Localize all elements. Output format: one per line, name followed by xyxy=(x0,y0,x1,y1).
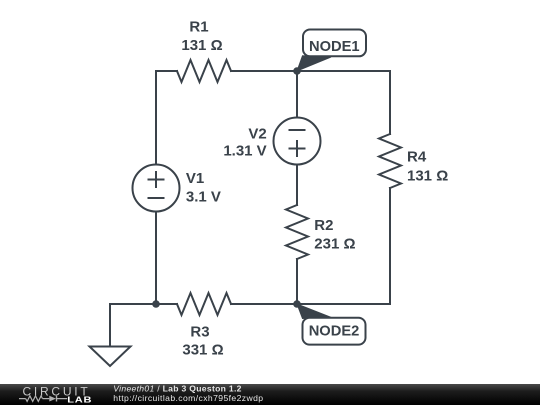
node junction dot left bottom xyxy=(152,300,160,308)
wire ground stem xyxy=(109,304,111,347)
node NODE2 callout tail xyxy=(297,304,331,319)
voltage source V1 xyxy=(133,165,180,212)
wire mid column lower xyxy=(296,259,298,304)
resistor R2 xyxy=(286,205,308,259)
wire bottom horizontal to right rail xyxy=(231,303,390,305)
resistor R4 xyxy=(379,134,401,188)
node NODE1 callout box xyxy=(303,30,366,57)
svg-text:V2: V2 xyxy=(248,125,266,142)
wire left rail upper xyxy=(155,71,157,165)
wire top horizontal to right rail xyxy=(231,70,390,72)
svg-text:V1: V1 xyxy=(186,170,204,187)
CircuitLab logo diode glyph xyxy=(49,396,56,402)
svg-text:R4: R4 xyxy=(407,149,427,166)
wire right rail upper xyxy=(389,71,391,134)
svg-text:R3: R3 xyxy=(190,323,209,340)
wire top-left horizontal xyxy=(156,70,177,72)
wire mid column upper xyxy=(296,71,298,118)
ground xyxy=(90,347,131,367)
resistor R3 xyxy=(177,293,231,315)
node junction dot NODE2 xyxy=(293,300,301,308)
svg-text:R2: R2 xyxy=(314,217,333,234)
svg-text:NODE1: NODE1 xyxy=(309,39,360,55)
svg-text:3.1 V: 3.1 V xyxy=(186,189,221,206)
svg-text:LAB: LAB xyxy=(67,396,92,405)
node NODE1 callout tail xyxy=(297,56,331,71)
svg-text:131 Ω: 131 Ω xyxy=(181,37,222,54)
wire bottom-left horizontal xyxy=(110,303,177,305)
svg-text:R1: R1 xyxy=(189,18,208,35)
svg-text:NODE2: NODE2 xyxy=(309,323,360,339)
svg-text:1.31 V: 1.31 V xyxy=(223,143,266,160)
svg-text:331 Ω: 331 Ω xyxy=(182,342,223,359)
wire mid column between V2 and R2 xyxy=(296,165,298,206)
voltage source V2 xyxy=(274,118,321,165)
wire right rail lower xyxy=(389,188,391,304)
wire left rail lower xyxy=(155,212,157,305)
svg-text:http://circuitlab.com/cxh795fe: http://circuitlab.com/cxh795fe2zwdp xyxy=(113,393,263,403)
svg-text:131 Ω: 131 Ω xyxy=(407,167,448,184)
svg-text:231 Ω: 231 Ω xyxy=(314,236,355,253)
resistor R1 xyxy=(177,60,231,82)
node NODE2 callout box xyxy=(303,318,366,345)
node junction dot NODE1 xyxy=(293,67,301,75)
CircuitLab logo resistor glyph xyxy=(26,396,43,402)
CircuitLab logo wire xyxy=(19,398,67,400)
